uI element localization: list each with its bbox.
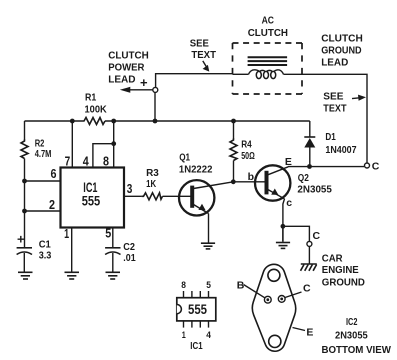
svg-text:3: 3 (127, 181, 133, 196)
svg-text:6: 6 (51, 166, 57, 181)
svg-text:CLUTCH: CLUTCH (321, 33, 363, 45)
node: junction power/rail (153, 119, 158, 124)
svg-text:C: C (303, 283, 311, 295)
wire junction to Q2 base (233, 181, 266, 183)
CLUTCH GROUND LEAD (321, 33, 363, 69)
pin 4 (83, 144, 114, 169)
svg-text:c: c (286, 197, 292, 209)
ground C1 (18, 272, 33, 279)
TO-3 package IC2 (2N3055 bottom view) (237, 264, 391, 355)
svg-text:1: 1 (64, 226, 69, 241)
pin 8 (103, 121, 114, 168)
resistor R2 (21, 137, 52, 160)
svg-text:1K: 1K (146, 178, 156, 190)
svg-text:C1: C1 (39, 239, 51, 251)
wire Q2 emitter to C terminal (288, 166, 364, 168)
pin 3 wire (124, 195, 142, 197)
ground Q1 (201, 243, 215, 249)
svg-text:3.3: 3.3 (39, 250, 52, 262)
svg-text:1N4007: 1N4007 (325, 144, 356, 156)
wire: power node up/down (155, 74, 233, 121)
svg-text:TEXT: TEXT (191, 49, 216, 61)
svg-text:CAR: CAR (322, 253, 343, 265)
svg-text:555: 555 (82, 193, 101, 209)
wire R3 to Q1 base (163, 195, 193, 197)
svg-text:TEXT: TEXT (323, 102, 347, 114)
ground Q2 (276, 226, 290, 248)
svg-text:D1: D1 (325, 131, 336, 143)
svg-text:IC1: IC1 (190, 340, 202, 352)
car engine ground (chassis) (301, 253, 366, 289)
svg-text:8: 8 (103, 153, 109, 168)
svg-text:SEE: SEE (190, 37, 209, 49)
svg-text:R1: R1 (85, 92, 96, 104)
resistor R4 (230, 121, 255, 182)
SEE TEXT (top) (190, 37, 217, 71)
svg-text:R4: R4 (241, 139, 252, 151)
connector C (bottom) (307, 241, 312, 246)
node: junction pin7/rail (70, 119, 75, 124)
wire: left rail (24, 121, 26, 248)
DIP-8 package IC1 (177, 280, 216, 352)
node: Q2 collector junction (281, 224, 286, 229)
node: pin8/pin4 junction (111, 141, 116, 146)
svg-text:Q2: Q2 (298, 172, 309, 184)
capacitor C1 (17, 231, 52, 272)
node: junction pin8/rail (111, 119, 116, 124)
svg-text:2N3055: 2N3055 (297, 184, 332, 196)
SEE TEXT (right) (323, 90, 366, 114)
wire C to car ground (308, 246, 310, 264)
svg-text:100K: 100K (85, 103, 108, 115)
svg-text:555: 555 (188, 301, 207, 317)
svg-text:SEE: SEE (323, 90, 343, 102)
capacitor C2 (105, 241, 136, 272)
ground pin1 (65, 272, 80, 279)
svg-text:C: C (372, 160, 380, 172)
AC clutch dashed box (233, 15, 303, 95)
svg-text:b: b (248, 171, 254, 183)
svg-text:GROUND: GROUND (322, 277, 365, 289)
svg-text:5: 5 (206, 280, 211, 291)
svg-text:4: 4 (83, 153, 90, 168)
pin 6 (25, 166, 61, 181)
resistor R3 (142, 167, 163, 200)
svg-text:4: 4 (206, 330, 211, 341)
ground C2 (106, 272, 121, 279)
node: junction R4/rail (231, 119, 236, 124)
pin 7 (65, 121, 73, 168)
pin 5 (105, 225, 113, 248)
svg-text:LEAD: LEAD (108, 74, 136, 86)
svg-text:7: 7 (65, 153, 71, 168)
svg-text:LEAD: LEAD (321, 56, 348, 68)
svg-text:CLUTCH: CLUTCH (108, 50, 149, 62)
svg-text:E: E (306, 327, 313, 339)
svg-text:C: C (313, 230, 321, 242)
svg-text:50Ω: 50Ω (241, 150, 255, 162)
svg-text:2: 2 (49, 197, 55, 212)
svg-text:2N3055: 2N3055 (335, 330, 368, 342)
connector: clutch power terminal (153, 87, 158, 92)
pin 1 (64, 226, 72, 272)
resistor R1 (82, 92, 107, 125)
clutch coil (233, 70, 303, 79)
wire: top power rail y=121 (25, 120, 310, 122)
node: pin6 junction (22, 179, 27, 184)
svg-text:AC: AC (262, 15, 275, 27)
svg-text:1: 1 (182, 330, 187, 341)
svg-text:BOTTOM VIEW: BOTTOM VIEW (322, 344, 391, 356)
svg-text:+: + (140, 75, 148, 90)
svg-text:POWER: POWER (108, 62, 145, 74)
svg-text:4.7M: 4.7M (35, 148, 52, 160)
wire: clutch to C terminal (302, 74, 367, 163)
svg-text:.01: .01 (123, 252, 136, 264)
clutch coil core bars (248, 57, 288, 65)
svg-text:ENGINE: ENGINE (322, 264, 359, 276)
node: Q1 collector / R4 / Q2 base junction (231, 179, 236, 184)
diode D1 (304, 121, 356, 167)
pin 2 (25, 197, 61, 212)
svg-text:GROUND: GROUND (321, 45, 362, 57)
node: pin2 junction (22, 209, 27, 214)
svg-text:5: 5 (105, 225, 111, 240)
IC1 555 box (61, 168, 125, 228)
clutch power lead arrow (108, 50, 153, 93)
svg-text:8: 8 (181, 280, 186, 291)
transistor Q2 (255, 156, 332, 241)
node: D1 / E-wire junction (307, 164, 312, 169)
transistor Q1 (179, 152, 233, 244)
svg-text:Q1: Q1 (179, 152, 190, 164)
wire to bottom C terminal (283, 226, 310, 241)
connector C (right) (365, 163, 370, 168)
svg-text:1N2222: 1N2222 (179, 164, 213, 176)
svg-text:CLUTCH: CLUTCH (248, 27, 288, 39)
svg-text:IC2: IC2 (346, 316, 358, 328)
svg-text:+: + (17, 231, 25, 246)
